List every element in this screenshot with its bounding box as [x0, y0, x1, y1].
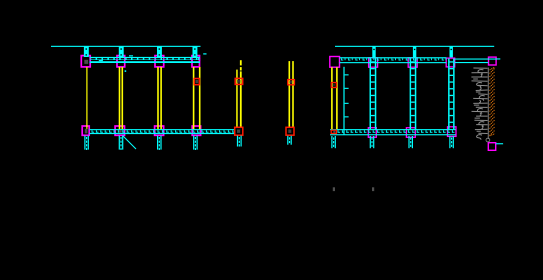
bottom coupler S4 (magenta): [448, 127, 457, 137]
upper coupler M4 (magenta): [192, 56, 200, 67]
bottom coupler S2 (magenta): [368, 128, 376, 138]
red base joint left column: [331, 130, 336, 139]
upper coupler M3 (magenta): [155, 56, 164, 67]
wall plaster squiggle hatch (gray): [471, 68, 487, 140]
top coupler Q1 (magenta): [330, 57, 340, 68]
upper connector post P4: [193, 47, 198, 57]
wall anchor coupler top (magenta): [489, 57, 497, 65]
diagonal leader at N2: [123, 136, 137, 150]
upper connector post P2: [119, 47, 124, 57]
upper connector post P3: [157, 47, 162, 57]
stub post below right assembly 3: [408, 136, 413, 148]
upper coupler M1 dark insert: [84, 60, 88, 64]
upper connector post R1: [372, 47, 375, 58]
bottom coupler S3 (magenta): [406, 128, 415, 138]
lattice column L2: [410, 59, 417, 130]
stub post below right assembly 2: [370, 136, 375, 148]
stub post below N1: [84, 136, 89, 151]
top coupler Q4 (magenta): [446, 58, 455, 67]
top coupler Q2 (magenta): [369, 58, 378, 67]
anchor leader tick: [496, 143, 503, 144]
hanger rod pair at P2: [119, 67, 123, 129]
top joist beam (right): [340, 57, 447, 63]
hanger rod pair at P3: [157, 67, 162, 129]
top edge line (left slab line): [51, 46, 201, 47]
bottom joist beam (right): [330, 129, 456, 135]
red clamp on left column: [331, 83, 336, 88]
upper connector post R3: [450, 47, 453, 58]
stray tick right of M4: [203, 53, 206, 54]
stub post below right assembly 1: [331, 136, 336, 148]
tiny label mark 2: [372, 187, 374, 191]
red clamp mid post B: [288, 80, 295, 85]
bottom ledger beam (left): [89, 129, 235, 134]
upper connector post R2: [413, 47, 416, 58]
shore post A (yellow pair, dashed top): [236, 60, 242, 127]
upper coupler M1 (magenta): [81, 56, 90, 67]
top coupler Q3 (magenta): [408, 58, 417, 67]
shore post B (yellow pair): [289, 61, 294, 127]
hanger rod single at P1: [86, 67, 87, 129]
gray hook circle at wall base: [486, 138, 490, 142]
lattice column L1: [370, 59, 377, 130]
wall diagonal hatch (orange): [490, 67, 496, 136]
wall tie line lower: [455, 62, 488, 63]
stub post below N3: [157, 136, 162, 151]
stub post below A: [237, 136, 242, 147]
lattice column L3: [448, 59, 455, 130]
upper connector post P1: [84, 47, 89, 57]
tiny label mark 1: [333, 187, 335, 191]
red base plate post B: [286, 127, 294, 135]
upper coupler M2 (magenta): [117, 56, 125, 67]
red clamp mid post A: [235, 78, 243, 84]
wall tie stub: [496, 58, 500, 59]
left column yellow pair: [331, 67, 338, 129]
upper ledger beam (left): [90, 57, 201, 63]
wall tie line upper: [455, 59, 496, 60]
stray dot near M2: [125, 70, 127, 72]
bottom coupler N2 dark insert: [119, 130, 122, 132]
bottom coupler N1 dark insert: [85, 129, 88, 134]
bottom coupler N2 (magenta): [115, 126, 124, 135]
bottom coupler N3 (magenta): [155, 126, 164, 135]
inner column line with ticks: [343, 67, 348, 135]
red clamp on P4 rods: [194, 79, 199, 85]
coupler edge overlays on ledger: [81, 58, 201, 61]
stray dash above ledger: [129, 55, 133, 56]
top edge line (right slab line): [335, 46, 494, 47]
wall face line (gray): [487, 68, 490, 140]
hanger rod pair at P4 (wide): [193, 67, 201, 129]
wall anchor coupler bottom (magenta): [488, 143, 495, 151]
bottom coupler N4 (magenta): [192, 126, 200, 135]
red base plate post A: [235, 127, 243, 135]
bottom coupler N1 (magenta): [82, 126, 89, 135]
stub post below right assembly 4: [449, 136, 454, 148]
stub post below B: [287, 136, 292, 145]
stub post below N4: [193, 136, 198, 151]
stub post below N2: [119, 136, 124, 151]
